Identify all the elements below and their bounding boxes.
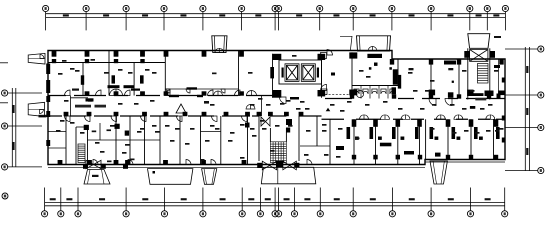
column (276, 161, 283, 167)
canopy door arc (40, 55, 44, 59)
room label text (250, 128, 255, 130)
column stairwell west (464, 51, 469, 58)
column corridor south (245, 112, 250, 116)
column (101, 164, 106, 169)
bottom dimension value (448, 198, 454, 200)
column (125, 131, 129, 136)
column duct band (85, 59, 89, 63)
column (485, 91, 494, 97)
room label text (470, 90, 475, 92)
top axis 14 stem (486, 12, 488, 31)
grid bubble bottom axis 10 (276, 211, 282, 217)
column left edge (46, 96, 50, 102)
right axis 1 tick (505, 48, 538, 50)
column bottom edge (163, 160, 168, 165)
wall (115, 116, 117, 165)
left dimension chain inner line (15, 88, 17, 167)
room label text (464, 130, 469, 132)
vestibule 1 double door arcs (215, 48, 224, 52)
flower double door (214, 91, 223, 96)
partial wall (48, 147, 66, 149)
wall (458, 59, 460, 99)
wall (419, 119, 421, 164)
column right top edge (429, 59, 433, 65)
flower double door (246, 105, 255, 110)
grid bubble top axis 1 (43, 5, 49, 11)
top axis 5 stem (202, 12, 204, 31)
bottom dimension value (265, 198, 271, 200)
partial wall (88, 139, 161, 141)
column corridor south (114, 112, 119, 116)
bed symbol (496, 127, 500, 139)
canopy elevation label (39, 115, 47, 118)
column right bottom edge (469, 155, 473, 160)
column corridor south (224, 112, 229, 116)
right dimension value (526, 148, 528, 155)
wall (87, 127, 89, 165)
elevator shaft outline (279, 60, 322, 84)
column (294, 163, 299, 168)
top dimension value (370, 14, 376, 16)
bottom dimension value (142, 198, 148, 200)
text cluster (474, 93, 484, 96)
column right bottom edge (494, 155, 498, 160)
bottom axis 15 stem (430, 188, 432, 211)
column duct band (114, 59, 118, 63)
top dimension value (63, 14, 69, 16)
door arc south rooms (212, 116, 218, 122)
stair mid crosshatch block (270, 142, 286, 163)
wall (220, 116, 222, 165)
bottom axis 1 stem (44, 188, 46, 211)
room label text (170, 140, 175, 142)
grid bubble bottom axis 5 (161, 211, 167, 217)
dark equipment bar (367, 54, 382, 58)
lobby door arc (280, 97, 287, 104)
top axis 8 stem (278, 12, 280, 31)
room label text (280, 103, 285, 105)
grid bubble bottom axis 15 (428, 211, 434, 217)
wall (129, 116, 131, 165)
bottom dimension value (220, 198, 226, 200)
room label text (462, 70, 467, 72)
toilet fixture (390, 89, 395, 94)
room label text (288, 125, 293, 127)
wall (375, 119, 377, 164)
column (350, 90, 355, 96)
top dimension chain lower line (46, 17, 506, 19)
wall (397, 59, 399, 86)
room label text (258, 98, 263, 100)
corridor dashed line (325, 93, 350, 95)
equipment text bar (187, 87, 198, 89)
equipment bar (444, 61, 456, 65)
ward double door (360, 115, 369, 120)
column right corridor north (457, 94, 461, 98)
room label text (75, 70, 80, 72)
bottom dimension chain lower line (45, 205, 505, 207)
bottom dimension value (284, 198, 290, 200)
room label text (322, 130, 327, 132)
top dimension value (493, 14, 499, 16)
stool (355, 137, 359, 140)
room label text (286, 100, 291, 102)
room label text (305, 108, 310, 110)
room label text (210, 104, 215, 106)
room label text (122, 152, 127, 154)
bed symbol (430, 127, 434, 139)
column top edge (164, 51, 169, 57)
bottom canopy 5 inner lines (433, 161, 444, 184)
room label text (100, 151, 105, 153)
bed symbol (452, 127, 456, 139)
grid bubble top axis 7 (272, 5, 278, 11)
text cluster (475, 98, 486, 101)
bottom canopy 1 (84, 170, 110, 185)
left axis 3 tick (8, 166, 42, 168)
room label text (107, 129, 112, 131)
bottom canopy 5 (430, 161, 447, 184)
column left edge (46, 140, 50, 146)
column right edge (502, 78, 505, 83)
column corridor north (164, 91, 169, 95)
building outer wall (48, 51, 505, 165)
text bar (290, 97, 299, 100)
room label (324, 154, 329, 156)
room label text (62, 60, 67, 62)
column (123, 164, 128, 169)
bottom axis 6 stem (202, 188, 204, 211)
wall (159, 116, 161, 165)
canopy column dot (153, 171, 156, 174)
door arc south rooms (141, 116, 147, 122)
top dimension value (476, 14, 482, 16)
column corridor south (268, 112, 273, 116)
room label text (145, 69, 150, 71)
grid bubble top axis 4 (161, 5, 167, 11)
room label text (296, 108, 301, 110)
wall (133, 63, 135, 96)
column corridor south (87, 112, 92, 116)
room label text (125, 144, 130, 146)
wall (425, 119, 427, 159)
room label text (152, 125, 157, 127)
top axis 4 stem (163, 12, 165, 31)
top axis 1 stem (45, 12, 47, 31)
column right edge (502, 116, 505, 121)
grid bubble top axis 5 (200, 5, 206, 11)
room label text (70, 68, 75, 70)
door arc north rooms (96, 90, 102, 96)
top dimension value (103, 14, 109, 16)
dense text cluster (108, 85, 120, 88)
bottom axis 16 stem (470, 188, 472, 211)
equipment bar vertical (398, 75, 401, 89)
elevator jamb (317, 68, 319, 78)
column (318, 90, 326, 96)
column (318, 54, 326, 60)
right axis 2 tick (505, 94, 538, 96)
room label text (185, 143, 190, 145)
room label text (175, 128, 180, 130)
door arc bottom (186, 160, 191, 165)
room label text (408, 72, 413, 74)
bed symbol (370, 127, 374, 139)
canopy leader line upper (0, 62, 8, 64)
grid bubble top axis 6 (239, 5, 245, 11)
room label text (88, 100, 93, 102)
column (448, 92, 454, 98)
column (286, 128, 290, 133)
dot (369, 67, 372, 70)
corridor north wall left wing (48, 95, 273, 97)
grid bubble bottom axis 11 (291, 211, 297, 217)
top dimension value (409, 14, 415, 16)
column right top edge (457, 59, 461, 65)
door arc bottom (93, 160, 98, 165)
wall pier (140, 75, 144, 83)
bottom dimension value (370, 198, 376, 200)
bottom canopy 2 (148, 169, 193, 185)
right dimension value (526, 108, 528, 115)
bottom axis 7 stem (241, 188, 243, 211)
bottom canopy 3 (202, 169, 217, 185)
room label (409, 68, 414, 70)
dark bar (470, 106, 475, 109)
door arc north rooms (165, 90, 171, 96)
grid bubble bottom axis 14 (389, 211, 395, 217)
room label text (252, 135, 257, 137)
door arc into corridor (445, 99, 452, 106)
column corridor south (299, 112, 304, 116)
room label text (248, 72, 253, 74)
column (349, 52, 357, 58)
room label text (383, 101, 388, 103)
bottom-left detail reference bubble (2, 193, 8, 199)
equipment (494, 65, 500, 68)
column (83, 164, 88, 169)
wall (351, 52, 353, 96)
room label text (488, 104, 493, 106)
wall (470, 119, 472, 159)
bed symbol (347, 127, 351, 139)
entrance double door west (262, 161, 276, 170)
room label text (425, 90, 430, 92)
left canopy lower (28, 102, 44, 116)
building bottom inner line right (425, 161, 505, 163)
partial wall (48, 131, 66, 133)
stairwell wall left (467, 48, 469, 99)
room label text (190, 128, 195, 130)
equipment text bar (131, 89, 140, 91)
canopy label (92, 175, 99, 177)
bottom axis 2 stem (60, 188, 62, 211)
room label text (107, 161, 112, 163)
corridor south wall right wing (322, 118, 506, 120)
column (115, 124, 120, 129)
room label text (134, 103, 139, 105)
door arc (327, 50, 333, 56)
bottom dimension value (99, 198, 105, 200)
top axis 12 stem (430, 12, 432, 31)
wall (65, 116, 67, 165)
bottom canopy 3 inner lines (204, 169, 214, 185)
bed symbol (415, 127, 419, 139)
toilet fixture (363, 89, 368, 94)
stair room wall (75, 127, 77, 165)
room label text (347, 101, 352, 103)
double door (247, 91, 257, 96)
door arc bottom (211, 160, 216, 165)
column right top edge (499, 59, 503, 65)
wall (200, 116, 202, 165)
bottom dimension value (50, 198, 56, 200)
column right bottom edge (373, 155, 377, 160)
service arc (221, 89, 225, 93)
grid bubble bottom axis 17 (502, 211, 508, 217)
column corridor south (284, 112, 289, 116)
door swing triangle (176, 104, 186, 113)
bottom entrance canopy (261, 167, 316, 184)
column right edge (502, 138, 505, 143)
room label text (420, 108, 425, 110)
left canopy upper inner line (28, 58, 45, 60)
column corridor north (140, 91, 145, 95)
room label text (91, 59, 96, 61)
bottom axis 3 stem (77, 188, 79, 211)
column corridor north (202, 91, 207, 95)
grid bubble bottom axis 1 (42, 211, 48, 217)
door arc south rooms (177, 116, 183, 122)
vestibule 2 double door arcs (368, 47, 377, 52)
elevator car 2 outer (301, 64, 315, 82)
toilet stall divider (360, 86, 362, 99)
column right corridor south (352, 119, 357, 127)
dot (452, 81, 454, 83)
left edge pier (46, 64, 50, 75)
wall (144, 116, 146, 165)
top dimension value (255, 14, 261, 16)
door arc north rooms (208, 90, 214, 96)
left edge pier (46, 80, 50, 93)
top dimension value (219, 14, 225, 16)
column right bottom edge (396, 155, 400, 160)
room label text (475, 132, 480, 134)
stair room wall (76, 126, 88, 128)
room label text (275, 125, 280, 127)
room label text (432, 104, 437, 106)
column (257, 163, 262, 168)
wall (329, 119, 331, 164)
column duct band (52, 59, 56, 63)
wall (498, 59, 500, 99)
bottom entrance canopy divider (277, 167, 279, 184)
ward double door (436, 115, 445, 120)
distribution box label (86, 98, 94, 101)
toilet stall divider (378, 86, 380, 99)
grid bubble left axis 3 (2, 164, 8, 170)
bottom axis 4 stem (125, 188, 127, 211)
left dimension value (12, 142, 14, 150)
column corridor south (64, 112, 69, 116)
ward double door (381, 115, 390, 120)
wall pier (270, 67, 274, 78)
room label text (212, 73, 217, 75)
bottom dimension value (304, 198, 310, 200)
column corridor north (239, 91, 244, 95)
room label text (240, 124, 245, 126)
room label text (366, 76, 371, 78)
column right corridor north (487, 94, 491, 98)
wall pier (81, 75, 84, 85)
bed symbol (474, 127, 478, 139)
column corridor north (85, 91, 90, 95)
bottom axis 14 stem (391, 188, 393, 211)
top axis 15 stem (504, 12, 506, 31)
service band wall (165, 88, 238, 90)
grid bubble bottom axis 12 (317, 211, 323, 217)
grid bubble bottom axis 7 (239, 211, 245, 217)
room label text (355, 138, 360, 140)
left axis 2 tick (8, 125, 42, 127)
top vestibule 2 (357, 36, 391, 51)
top dimension value (180, 14, 186, 16)
grid bubble top axis 10 (350, 5, 356, 11)
room label (304, 154, 309, 156)
room label text (230, 132, 235, 134)
room label text (205, 140, 210, 142)
furniture (435, 153, 441, 157)
top vestibule 1 inner lines (214, 36, 224, 53)
wall (493, 119, 495, 159)
top vestibule 1 (212, 36, 227, 53)
text row (75, 105, 91, 108)
table (380, 143, 392, 147)
wall (353, 119, 355, 164)
elevator car 1 (287, 65, 298, 80)
column right bottom edge (352, 155, 356, 160)
column (429, 90, 435, 96)
door arc south rooms (65, 116, 71, 122)
column stairwell east (490, 51, 495, 58)
room label text (92, 131, 97, 133)
room label text (262, 128, 267, 130)
stool (457, 137, 461, 140)
column (273, 54, 282, 60)
wall (108, 51, 110, 96)
grid bubble top axis 15 (502, 5, 508, 11)
column right bottom edge (446, 155, 450, 160)
top axis 13 stem (469, 12, 471, 31)
door arc (321, 85, 327, 91)
elevator car 2 (303, 65, 314, 80)
room label text (306, 130, 311, 132)
column (273, 90, 282, 98)
column (84, 125, 89, 130)
canopy door arc (40, 110, 44, 114)
top axis 7 stem (274, 12, 276, 31)
wall (430, 59, 432, 99)
grid bubble top axis 3 (123, 5, 129, 11)
corridor north wall right wing (325, 98, 505, 100)
bottom axis 12 stem (319, 188, 321, 211)
top vestibule 3 double-door X (470, 50, 488, 62)
wall (272, 54, 274, 98)
column (467, 90, 473, 96)
room label text (330, 104, 335, 106)
top axis 3 stem (125, 12, 127, 31)
right axis 4 tick (505, 170, 538, 172)
